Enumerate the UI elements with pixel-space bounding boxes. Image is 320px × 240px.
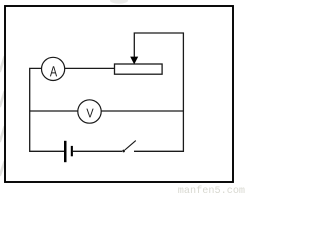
svg-text:manfen5.com: manfen5.com: [178, 185, 245, 195]
rheostat R (slide resistor box): [115, 64, 163, 74]
battery BT (cell) : long plate: [64, 141, 67, 162]
wire: switch right lead + right vertical + top inner + wiper stem: [134, 33, 183, 151]
switch S lever: [125, 141, 136, 150]
wire: battery to switch: [73, 150, 122, 152]
border frame: [5, 6, 233, 182]
wiper arrowhead: [130, 57, 138, 65]
watermark arc fragments (left margin): [0, 57, 5, 175]
wire: voltmeter row: [30, 110, 184, 112]
voltmeter V1: [78, 100, 101, 123]
wire: ammeter row + left vertical + battery left lead: [30, 68, 115, 151]
watermark blob (top edge): [110, 0, 128, 4]
battery short plate: [71, 146, 73, 156]
switch S pivot: [122, 150, 125, 153]
ammeter A1: [42, 57, 65, 80]
